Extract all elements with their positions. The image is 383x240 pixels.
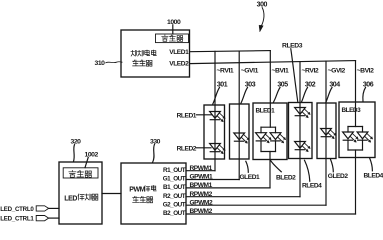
svg-text:G1_OUT: G1_OUT [163,176,186,183]
svg-text:~RVI2: ~RVI2 [302,67,319,74]
svg-text:RLED1: RLED1 [177,113,197,120]
svg-text:~GVI2: ~GVI2 [328,67,346,74]
svg-text:PWM: PWM [129,187,145,194]
svg-text:303: 303 [245,81,256,88]
svg-text:RLED3: RLED3 [282,43,303,50]
svg-text:1000: 1000 [167,19,181,26]
svg-text:330: 330 [150,138,161,145]
svg-text:~BVI2: ~BVI2 [357,67,374,74]
svg-text:306: 306 [363,81,374,88]
svg-text:LED_CTRL1: LED_CTRL1 [0,216,34,223]
svg-text:301: 301 [217,81,228,88]
svg-text:RLED4: RLED4 [302,182,322,189]
svg-text:~GVI1: ~GVI1 [241,67,259,74]
svg-text:GLED2: GLED2 [328,173,349,180]
svg-text:310: 310 [95,60,106,67]
svg-text:BLED4: BLED4 [364,173,383,180]
svg-text:BLED1: BLED1 [256,108,276,115]
svg-text:320: 320 [71,139,82,146]
svg-text:LED_CTRL0: LED_CTRL0 [0,206,34,213]
svg-text:302: 302 [305,81,316,88]
svg-text:B2_OUT: B2_OUT [163,210,186,217]
svg-text:304: 304 [329,81,340,88]
svg-text:VLED2: VLED2 [169,61,189,68]
svg-text:1002: 1002 [85,151,99,158]
svg-text:R2_OUT: R2_OUT [163,193,186,200]
svg-text:R1_OUT: R1_OUT [163,167,186,174]
svg-text:RLED2: RLED2 [177,146,197,153]
svg-text:VLED1: VLED1 [169,49,189,56]
svg-text:BLED2: BLED2 [276,174,296,181]
svg-text:BLED3: BLED3 [342,107,362,114]
svg-text:LED: LED [64,195,77,202]
svg-text:~RVI1: ~RVI1 [217,67,234,74]
svg-text:~BVI1: ~BVI1 [272,67,289,74]
svg-text:G2_OUT: G2_OUT [163,201,186,208]
svg-text:B1_OUT: B1_OUT [163,184,186,191]
svg-text:GLED1: GLED1 [240,174,261,181]
svg-text:305: 305 [277,81,288,88]
